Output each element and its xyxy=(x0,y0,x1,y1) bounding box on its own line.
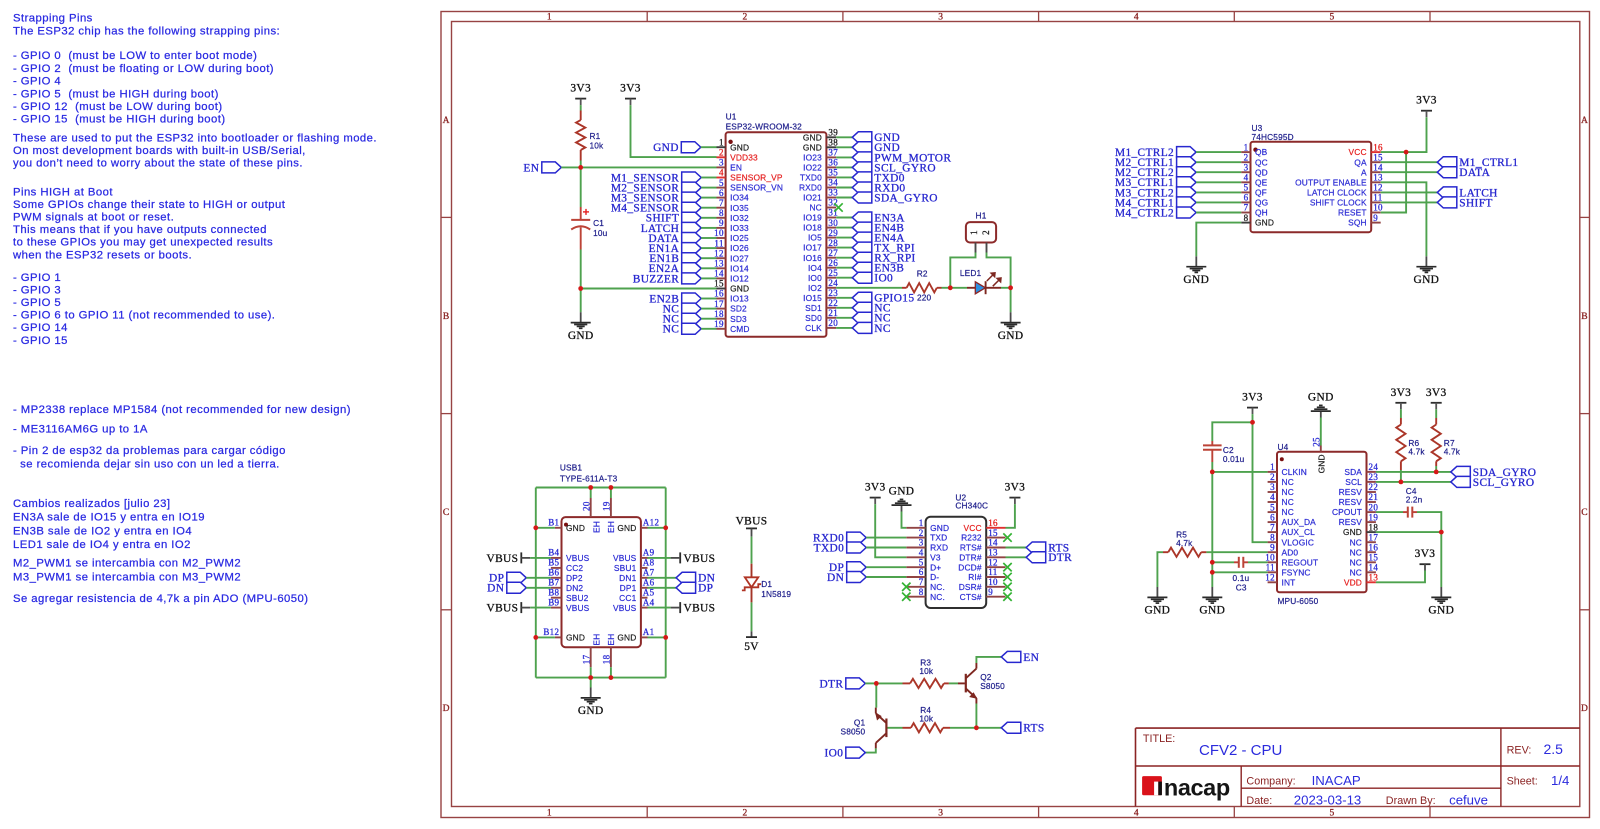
wire Q2 emitter to RTS junction xyxy=(975,704,977,728)
hier label DN at B7 xyxy=(507,582,527,593)
svg-text:NC.: NC. xyxy=(930,592,945,602)
svg-text:A: A xyxy=(443,116,450,126)
svg-text:GND: GND xyxy=(568,330,594,342)
svg-text:IO4: IO4 xyxy=(808,263,822,273)
svg-text:4: 4 xyxy=(1134,13,1139,23)
U2 pin 6 D- xyxy=(906,576,925,578)
power 3V3 left of U2 xyxy=(870,497,881,499)
wire R6 to SCL row xyxy=(1400,470,1402,482)
U4 pin 11 FSYNC xyxy=(1268,571,1277,573)
svg-text:5V: 5V xyxy=(744,641,759,653)
hier label M1_CTRL1 U3 pin15 xyxy=(1381,161,1438,163)
svg-text:CFV2 - CPU: CFV2 - CPU xyxy=(1199,742,1282,759)
svg-text:15: 15 xyxy=(714,279,724,289)
U4 pin 23 SCL xyxy=(1367,481,1376,483)
svg-text:GND: GND xyxy=(566,633,585,643)
U1 pin 26 IO4 xyxy=(826,267,836,269)
svg-text:GND: GND xyxy=(1414,274,1440,286)
frame row ticks xyxy=(441,216,452,218)
hier label RXD0 at U1 pin 34 xyxy=(836,187,852,189)
resistor R6 4.7k xyxy=(1400,409,1402,418)
component U1 ESP32-WROOM-32 body xyxy=(726,132,827,336)
hier label LATCH U3 pin12 xyxy=(1381,191,1438,193)
svg-text:IO12: IO12 xyxy=(730,274,749,284)
svg-text:VLOGIC: VLOGIC xyxy=(1282,537,1315,547)
wire GND label to pin 1 xyxy=(701,146,717,148)
USB1 pin B7 DN2 xyxy=(551,587,562,589)
svg-text:24: 24 xyxy=(1369,462,1379,472)
svg-text:GND: GND xyxy=(1145,605,1171,617)
svg-text:6: 6 xyxy=(1270,512,1275,522)
U3 pin 6 QG xyxy=(1241,201,1250,203)
svg-text:CC2: CC2 xyxy=(566,563,583,573)
svg-text:PWM signals at boot or reset.: PWM signals at boot or reset. xyxy=(13,212,174,224)
svg-text:QE: QE xyxy=(1255,177,1268,187)
svg-text:13: 13 xyxy=(1373,173,1383,183)
wire Q2 collector to EN label xyxy=(976,657,1001,663)
hier label EN2A to U1 pin 13 xyxy=(682,263,702,274)
svg-text:SCL: SCL xyxy=(1345,477,1362,487)
svg-text:10k: 10k xyxy=(919,666,934,676)
wire junction to U4 CLKIN pin1 xyxy=(1212,471,1267,473)
svg-text:NC: NC xyxy=(1350,557,1362,567)
hier label EN1A to U1 pin 11 xyxy=(682,243,702,254)
svg-text:RTS: RTS xyxy=(1023,723,1044,735)
svg-text:19: 19 xyxy=(1369,512,1379,522)
hier label IO0 at Q1 xyxy=(846,747,866,758)
svg-text:12: 12 xyxy=(714,248,724,258)
svg-text:34: 34 xyxy=(828,178,838,188)
svg-text:10: 10 xyxy=(1373,203,1383,213)
svg-text:17: 17 xyxy=(1369,532,1379,542)
U3 pin 2 QC xyxy=(1241,161,1250,163)
svg-text:U4: U4 xyxy=(1278,442,1289,452)
USB1 ground drop xyxy=(590,678,592,688)
power VBUS at B9 xyxy=(520,602,522,613)
svg-text:IO34: IO34 xyxy=(730,193,749,203)
U2 pin 5 D+ xyxy=(906,566,925,568)
U3 pin 14 A xyxy=(1371,171,1381,173)
svg-text:14: 14 xyxy=(1369,563,1379,573)
svg-text:VCC: VCC xyxy=(964,523,982,533)
svg-text:TXD: TXD xyxy=(930,533,947,543)
svg-text:M4_CTRL2: M4_CTRL2 xyxy=(1115,207,1174,219)
svg-text:- GPIO 2 (must be floating or: - GPIO 2 (must be floating or LOW during… xyxy=(13,63,274,75)
svg-text:4: 4 xyxy=(919,548,924,558)
svg-text:2: 2 xyxy=(919,528,924,538)
hier label NC to U1 pin 17 xyxy=(682,303,702,314)
U1 pin 8 IO32 xyxy=(717,217,726,219)
svg-text:24: 24 xyxy=(828,278,838,288)
svg-text:B7: B7 xyxy=(548,578,559,588)
svg-text:18: 18 xyxy=(1369,522,1379,532)
wire junction to R3 xyxy=(876,682,902,684)
svg-text:1: 1 xyxy=(547,13,552,23)
svg-text:IO16: IO16 xyxy=(803,253,822,263)
svg-text:LED1 sale de IO4 y entra en IO: LED1 sale de IO4 y entra en IO2 xyxy=(13,539,191,551)
svg-text:B9: B9 xyxy=(548,597,559,607)
USB1 shield rail bottom xyxy=(536,677,666,679)
svg-text:2: 2 xyxy=(981,230,991,235)
hier label DTR Q area xyxy=(846,678,866,689)
U1 pin 3 EN xyxy=(717,166,726,168)
U1 pin 11 IO26 xyxy=(717,247,726,249)
svg-text:D-: D- xyxy=(930,572,939,582)
capacitor C2 0.01u xyxy=(1211,441,1213,445)
svg-text:- GPIO 15 (must be HIGH durin: - GPIO 15 (must be HIGH during boot) xyxy=(13,114,226,126)
svg-text:IO2: IO2 xyxy=(808,283,822,293)
svg-text:nacap: nacap xyxy=(1164,774,1230,800)
svg-text:8: 8 xyxy=(719,208,724,218)
USB1 pin A9 VBUS xyxy=(641,557,648,559)
svg-text:CLKIN: CLKIN xyxy=(1282,467,1307,477)
svg-text:5: 5 xyxy=(919,557,924,567)
svg-text:38: 38 xyxy=(828,138,838,148)
svg-text:IO33: IO33 xyxy=(730,223,749,233)
svg-text:CTS#: CTS# xyxy=(960,592,982,602)
svg-text:B12: B12 xyxy=(543,627,559,637)
svg-text:4: 4 xyxy=(1134,809,1139,819)
svg-text:23: 23 xyxy=(1369,472,1379,482)
svg-text:37: 37 xyxy=(828,148,838,158)
svg-text:SD1: SD1 xyxy=(805,303,822,313)
svg-text:EH: EH xyxy=(606,634,616,646)
U1 pin 2 VDD33 xyxy=(717,156,726,158)
svg-text:IO21: IO21 xyxy=(803,193,822,203)
svg-text:Sheet:: Sheet: xyxy=(1507,775,1538,787)
wire H1 pin1 to LED junction left xyxy=(950,253,975,288)
svg-text:10: 10 xyxy=(714,228,724,238)
hier label SHIFT to U1 pin 8 xyxy=(682,212,702,223)
svg-text:- GPIO 4: - GPIO 4 xyxy=(13,76,61,88)
U1 pin 7 IO35 xyxy=(717,207,726,209)
USB1 pin B5 CC2 xyxy=(551,567,562,569)
svg-text:11: 11 xyxy=(988,567,997,577)
svg-text:GND: GND xyxy=(1308,392,1334,404)
hier label NC at U1 pin 21 xyxy=(836,317,852,319)
U4 pin 8 VLOGIC xyxy=(1268,541,1277,543)
svg-text:5: 5 xyxy=(1270,502,1275,512)
svg-text:TXD0: TXD0 xyxy=(814,542,845,554)
U1 pin 23 IO15 xyxy=(826,297,836,299)
USB1 pin A7 DN1 xyxy=(641,577,648,579)
svg-text:D: D xyxy=(443,704,450,714)
svg-text:SENSOR_VN: SENSOR_VN xyxy=(730,183,783,193)
svg-text:CC1: CC1 xyxy=(619,593,636,603)
U2 pin 1 GND xyxy=(906,527,925,529)
U1 pin 21 SD0 xyxy=(826,317,836,319)
U4 pin 7 AUX_CL xyxy=(1268,531,1277,533)
svg-text:REGOUT: REGOUT xyxy=(1282,557,1319,567)
svg-text:39: 39 xyxy=(828,128,838,138)
svg-text:DN1: DN1 xyxy=(619,573,636,583)
wire Q1 emitter up to DTR junction xyxy=(875,683,877,707)
svg-text:5: 5 xyxy=(719,178,724,188)
wire junction down to ground xyxy=(1010,288,1012,312)
svg-text:B6: B6 xyxy=(548,568,559,578)
U4 pin 17 NC xyxy=(1367,541,1376,543)
USB1 shield rail top xyxy=(536,487,666,489)
svg-text:13: 13 xyxy=(988,548,998,558)
power VBUS at A9 xyxy=(679,552,681,563)
svg-text:22: 22 xyxy=(828,298,838,308)
U3 pin 16 VCC xyxy=(1371,151,1381,153)
U1 pin 32 NC xyxy=(826,207,836,209)
svg-text:DN2: DN2 xyxy=(566,583,583,593)
svg-text:This means that if you have ou: This means that if you have outputs conn… xyxy=(13,224,267,236)
svg-text:A5: A5 xyxy=(643,588,655,598)
svg-text:5: 5 xyxy=(1244,183,1249,193)
U2 pin 16 VCC xyxy=(986,527,1005,529)
U1 pin 18 SD3 xyxy=(717,318,726,320)
svg-text:DSR#: DSR# xyxy=(959,582,982,592)
svg-text:5: 5 xyxy=(1330,809,1335,819)
wire U1 pin 24 IO2 to R2 xyxy=(836,287,902,289)
svg-text:15: 15 xyxy=(988,528,998,538)
wire C1 to GND xyxy=(580,250,582,289)
hier label EN3A at U1 pin 31 xyxy=(836,217,852,219)
svg-text:GND: GND xyxy=(1255,218,1274,228)
svg-text:26: 26 xyxy=(828,258,838,268)
svg-text:3: 3 xyxy=(938,13,943,23)
hier label DTR at U2 DTR# xyxy=(1006,556,1027,558)
wire C2 to CLKIN junction xyxy=(1211,462,1213,472)
svg-text:SD3: SD3 xyxy=(730,314,747,324)
svg-text:11: 11 xyxy=(1266,563,1275,573)
svg-text:Company:: Company: xyxy=(1246,775,1295,787)
svg-text:B5: B5 xyxy=(548,558,559,568)
hier label LATCH to U1 pin 9 xyxy=(682,222,702,233)
svg-text:10u: 10u xyxy=(593,228,608,238)
ground inverted above U4 xyxy=(1320,411,1322,417)
U4 pin 3 NC xyxy=(1268,491,1277,493)
svg-text:- GPIO 1: - GPIO 1 xyxy=(13,272,61,284)
svg-text:- GPIO 12 (must be LOW during: - GPIO 12 (must be LOW during boot) xyxy=(13,101,223,113)
U2 pin 11 RI# xyxy=(986,576,1005,578)
svg-text:SENSOR_VP: SENSOR_VP xyxy=(730,173,783,183)
U3 pin 8 GND xyxy=(1241,222,1250,224)
U3 pin 1 QB xyxy=(1241,151,1250,153)
hier label M3_CTRL2 U3 pin 5 xyxy=(1177,187,1197,198)
USB1 shield rail right xyxy=(665,488,667,678)
hier label RX_RPI at U1 pin 27 xyxy=(836,257,852,259)
svg-text:25: 25 xyxy=(828,268,838,278)
component U3 74HC595D body xyxy=(1251,142,1372,233)
wire FSYNC pin11 xyxy=(1212,571,1267,573)
U1 pin 12 IO27 xyxy=(717,257,726,259)
svg-text:GND: GND xyxy=(730,284,749,294)
U4 pin 2 NC xyxy=(1268,481,1277,483)
svg-text:28: 28 xyxy=(828,238,838,248)
svg-text:SBU2: SBU2 xyxy=(566,593,589,603)
svg-text:A12: A12 xyxy=(643,518,660,528)
hier label DP at A6 xyxy=(648,587,677,589)
svg-text:SDA_GYRO: SDA_GYRO xyxy=(874,192,938,204)
svg-text:QH: QH xyxy=(1255,208,1268,218)
wire Q1 collector down to IO0 xyxy=(865,748,876,752)
svg-text:GND: GND xyxy=(1199,605,1225,617)
wire D1 to 5V xyxy=(751,602,753,631)
svg-text:- MP2338 replace MP1584 (not r: - MP2338 replace MP1584 (not recommended… xyxy=(13,404,351,416)
svg-text:VBUS: VBUS xyxy=(487,553,519,565)
svg-text:7: 7 xyxy=(719,198,724,208)
hier label EN4A at U1 pin 29 xyxy=(836,237,852,239)
U1 pin 19 CMD xyxy=(717,328,726,330)
svg-text:SD0: SD0 xyxy=(805,313,822,323)
svg-text:VBUS: VBUS xyxy=(684,553,716,565)
hier label M3_SENSOR to U1 pin 6 xyxy=(682,192,702,203)
svg-text:NC: NC xyxy=(874,323,891,335)
U4 pin 12 INT xyxy=(1268,581,1277,583)
svg-text:A1: A1 xyxy=(643,627,655,637)
svg-text:A: A xyxy=(1581,116,1588,126)
U4 pin 6 AUX_DA xyxy=(1268,521,1277,523)
svg-text:NC: NC xyxy=(1282,477,1294,487)
hier label EN2B to U1 pin 16 xyxy=(682,293,702,304)
U1 pin 14 IO12 xyxy=(717,277,726,279)
svg-text:INT: INT xyxy=(1282,577,1296,587)
hier label DATA U3 pin14 xyxy=(1381,171,1438,173)
svg-text:17: 17 xyxy=(714,299,724,309)
svg-text:when the ESP32 resets or boots: when the ESP32 resets or boots. xyxy=(12,249,192,261)
svg-text:CH340C: CH340C xyxy=(955,501,988,511)
wire R5 left to ground xyxy=(1157,552,1163,587)
capacitor C3 0.1u xyxy=(1234,561,1238,563)
U1 pin 15 GND xyxy=(717,288,726,290)
hier label NC to U1 pin 18 xyxy=(682,313,702,324)
svg-text:to these GPIOs you may get une: to these GPIOs you may get unexpected re… xyxy=(13,237,273,249)
svg-text:NC.: NC. xyxy=(930,582,945,592)
hier label DP at B6 xyxy=(507,572,527,583)
hier label M1_CTRL2 U3 pin 1 xyxy=(1177,147,1197,158)
wire LED1 to GND junction xyxy=(1001,287,1011,289)
U1 pin 28 IO17 xyxy=(826,247,836,249)
svg-text:H1: H1 xyxy=(976,210,987,220)
svg-text:FSYNC: FSYNC xyxy=(1282,567,1311,577)
svg-text:3V3: 3V3 xyxy=(620,83,641,95)
svg-text:35: 35 xyxy=(828,168,838,178)
svg-text:se recomienda dejar sin uso co: se recomienda dejar sin uso con un led a… xyxy=(13,459,280,471)
svg-text:220: 220 xyxy=(917,293,932,303)
svg-text:3V3: 3V3 xyxy=(1391,387,1412,399)
power 3V3 top-left xyxy=(575,98,586,100)
U1 pin 30 IO18 xyxy=(826,227,836,229)
U3 pin 5 QF xyxy=(1241,191,1250,193)
U4 pin 9 AD0 xyxy=(1268,551,1277,553)
U4 pin 16 NC xyxy=(1367,551,1376,553)
svg-text:3V3: 3V3 xyxy=(865,482,886,494)
svg-text:NC: NC xyxy=(1282,497,1294,507)
diode D1 1N5819 schottky xyxy=(751,564,753,578)
transistor Q1 S8050 NPN mirrored xyxy=(885,719,887,738)
U2 pin 15 R232 xyxy=(986,537,1005,539)
svg-text:- GPIO 0 (must be LOW to ente: - GPIO 0 (must be LOW to enter boot mode… xyxy=(13,50,257,62)
svg-text:Date:: Date: xyxy=(1246,795,1272,807)
resistor R3 10k xyxy=(903,682,911,684)
svg-text:18: 18 xyxy=(714,309,724,319)
svg-text:EN3B sale de IO2 y entra en IO: EN3B sale de IO2 y entra en IO4 xyxy=(13,525,192,537)
svg-text:7: 7 xyxy=(1270,522,1275,532)
svg-text:VBUS: VBUS xyxy=(613,603,637,613)
U1 pin 24 IO2 xyxy=(826,287,836,289)
svg-text:21: 21 xyxy=(828,308,838,318)
svg-text:- Pin 2 de esp32 da problemas: - Pin 2 de esp32 da problemas para carga… xyxy=(13,445,286,457)
svg-text:4: 4 xyxy=(719,168,724,178)
wire CLKIN junction down to ground xyxy=(1211,472,1213,587)
svg-text:1: 1 xyxy=(1244,142,1249,152)
svg-text:IO18: IO18 xyxy=(803,223,822,233)
svg-text:SHIFT CLOCK: SHIFT CLOCK xyxy=(1310,198,1367,208)
svg-text:A8: A8 xyxy=(643,558,655,568)
svg-text:NC: NC xyxy=(1350,537,1362,547)
U3 pin 9 SQH xyxy=(1371,222,1381,224)
sheet frame outer border xyxy=(441,12,1590,818)
svg-text:6: 6 xyxy=(919,567,924,577)
svg-text:VBUS: VBUS xyxy=(613,553,637,563)
svg-text:30: 30 xyxy=(828,218,838,228)
svg-text:QG: QG xyxy=(1255,198,1268,208)
hier label SDA_GYRO xyxy=(1451,466,1471,477)
USB1 pin A1 GND xyxy=(641,636,648,638)
svg-text:QF: QF xyxy=(1255,188,1267,198)
USB1 pin A12 GND xyxy=(641,527,648,529)
U4 pin 13 VDD xyxy=(1367,581,1376,583)
svg-text:IO14: IO14 xyxy=(730,263,749,273)
U2 pin 3 RXD xyxy=(906,547,925,549)
U1 pin 5 SENSOR_VN xyxy=(717,187,726,189)
wire OUTPUT ENABLE pin13 to ground xyxy=(1381,182,1427,256)
USB1 pin A6 DP1 xyxy=(641,587,648,589)
hier label NC at U1 pin 20 xyxy=(836,327,852,329)
hier label EN4B at U1 pin 30 xyxy=(836,227,852,229)
svg-text:1: 1 xyxy=(719,137,724,147)
svg-text:AUX_CL: AUX_CL xyxy=(1282,527,1316,537)
USB1 pin A4 VBUS xyxy=(641,607,648,609)
svg-text:B: B xyxy=(443,312,450,322)
svg-text:DTR: DTR xyxy=(819,678,843,690)
capacitor C1 10u polarized xyxy=(580,207,582,219)
U2 pin 13 DTR# xyxy=(986,556,1005,558)
USB1 pin B6 DP2 xyxy=(551,577,562,579)
svg-text:DATA: DATA xyxy=(1459,167,1490,179)
ground symbol right of U4 xyxy=(1440,587,1442,597)
svg-text:3: 3 xyxy=(1244,162,1249,172)
U4 pin 25 GND top xyxy=(1320,446,1322,452)
svg-text:2023-03-13: 2023-03-13 xyxy=(1294,793,1361,808)
svg-text:C: C xyxy=(1581,508,1588,518)
svg-text:GND: GND xyxy=(1183,274,1209,286)
svg-text:A7: A7 xyxy=(643,568,655,578)
svg-text:B4: B4 xyxy=(548,548,559,558)
hier label EN1B to U1 pin 12 xyxy=(682,253,702,264)
svg-text:GND: GND xyxy=(617,523,636,533)
svg-text:EN: EN xyxy=(1023,652,1039,664)
U4 pin 4 NC xyxy=(1268,501,1277,503)
svg-text:cefuve: cefuve xyxy=(1449,793,1488,808)
svg-text:10: 10 xyxy=(988,577,998,587)
U1 pin 33 IO21 xyxy=(826,197,836,199)
U4 pin 21 RESV xyxy=(1367,501,1376,503)
U4 pin 22 RESV xyxy=(1367,491,1376,493)
U4 pin 14 NC xyxy=(1367,571,1376,573)
svg-text:GND: GND xyxy=(730,142,749,152)
svg-text:M3_PWM1 se intercambia con M3_: M3_PWM1 se intercambia con M3_PWM2 xyxy=(13,572,241,584)
wire R2 to LED1 xyxy=(942,287,951,289)
svg-text:S8050: S8050 xyxy=(841,727,866,737)
svg-text:These are used to put the ESP3: These are used to put the ESP32 into boo… xyxy=(13,132,377,144)
svg-text:16: 16 xyxy=(1369,542,1379,552)
U1 pin 35 TXD0 xyxy=(826,176,836,178)
